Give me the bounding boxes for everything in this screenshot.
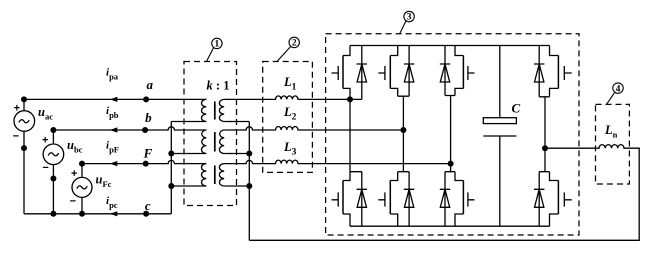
node a	[143, 96, 149, 102]
circled label 4	[607, 83, 624, 105]
node on u_bc wire	[50, 176, 56, 182]
node c	[143, 211, 149, 217]
svg-text:ipc: ipc	[106, 195, 118, 210]
junction secondary common T3	[246, 183, 252, 189]
wire DC bottom rail	[350, 225, 550, 227]
node u_bc bottom	[50, 211, 56, 217]
transformer T3 secondary winding	[219, 164, 224, 186]
transformer T1 primary bottom wire	[171, 121, 206, 123]
AC source u_ac	[14, 99, 35, 213]
junction secondary common T2	[246, 151, 252, 157]
transformer T3 secondary bottom wire	[224, 185, 249, 187]
svg-text:4: 4	[616, 84, 621, 94]
transformer T2 secondary bottom wire	[224, 153, 249, 155]
diode D7	[440, 172, 450, 227]
circled label 2	[277, 37, 299, 61]
junction leg4 midpoint	[542, 145, 548, 151]
arrow i_pF	[110, 161, 118, 166]
circled label 3	[400, 11, 415, 34]
wire row3 with hop and inductor L3	[224, 160, 450, 164]
svg-text:+: +	[71, 168, 77, 180]
svg-text:L3: L3	[283, 140, 297, 158]
diode D5	[357, 172, 367, 227]
transistor Q7 bottom leg3 mirrored	[445, 164, 475, 227]
AC source u_Fc	[72, 164, 92, 214]
svg-text:L1: L1	[283, 75, 297, 93]
transformer T1 secondary winding	[219, 99, 224, 121]
dashed block 1 transformer	[184, 62, 237, 206]
wire line b with hop	[53, 127, 206, 130]
svg-text:ipF: ipF	[106, 140, 119, 155]
dashed block 2 inductors	[263, 62, 313, 173]
transformer T1 primary winding	[201, 99, 206, 121]
transformer T1 secondary bottom wire	[224, 121, 249, 123]
transistor Q4 top leg4 mirrored	[539, 46, 572, 149]
transistor Q5 bottom leg1	[332, 99, 362, 226]
wire DC top rail	[350, 45, 550, 47]
diode D6	[404, 172, 414, 227]
transistor Q6 bottom leg2	[378, 130, 409, 226]
diode D8	[534, 172, 544, 227]
node u_bc top	[50, 127, 56, 133]
svg-text:k : 1: k : 1	[207, 79, 230, 93]
wire row2 with hop and inductor L2	[224, 126, 403, 130]
circled label 1	[207, 38, 223, 61]
svg-text:ipb: ipb	[106, 105, 119, 120]
svg-text:L2: L2	[283, 105, 297, 123]
junction primary common T2	[168, 151, 174, 157]
transformer T2 core	[214, 132, 216, 152]
arrow i_pb	[110, 127, 118, 132]
transformer T1 core	[214, 102, 216, 120]
transformer T3 core	[214, 166, 216, 185]
svg-text:+: +	[14, 102, 20, 114]
diode D3	[440, 46, 450, 96]
node u_ac top	[21, 96, 27, 102]
svg-text:b: b	[145, 110, 152, 125]
transformer T3 primary winding	[201, 164, 206, 186]
svg-text:−: −	[42, 162, 48, 174]
diode D2	[404, 46, 414, 97]
svg-text:1: 1	[215, 40, 220, 50]
svg-text:+: +	[42, 135, 48, 147]
wire primary common vertical	[170, 122, 172, 214]
transformer T2 primary bottom wire	[171, 153, 206, 155]
transistor Q2 top leg2	[378, 46, 409, 131]
dashed block 4 Ln	[596, 104, 630, 184]
svg-text:C: C	[512, 101, 521, 116]
diode D1	[357, 46, 367, 100]
wire line a	[24, 98, 206, 100]
svg-text:F: F	[143, 146, 153, 161]
svg-text:uac: uac	[38, 105, 53, 122]
transformer T3 primary bottom wire	[171, 185, 206, 187]
node u_Fc bottom	[79, 211, 85, 217]
transformer T2 secondary winding	[219, 130, 224, 154]
svg-text:c: c	[145, 198, 151, 213]
node F	[143, 161, 149, 167]
transformer T2 primary winding	[202, 130, 207, 154]
arrow i_pc	[110, 211, 118, 216]
svg-text:2: 2	[292, 39, 297, 49]
svg-text:Ln: Ln	[604, 123, 618, 140]
junction leg2 midpoint	[400, 127, 406, 133]
capacitor C	[483, 46, 516, 227]
node on u_ac wire	[21, 145, 27, 151]
diode D4	[534, 46, 544, 97]
junction primary common T3	[168, 183, 174, 189]
svg-text:a: a	[147, 77, 154, 92]
transistor Q1 top leg1	[332, 46, 351, 100]
svg-text:uFc: uFc	[96, 173, 112, 190]
node b	[142, 127, 148, 133]
dashed block 3 converter	[326, 34, 579, 235]
wire line F with hop	[82, 160, 206, 163]
arrow i_pa	[110, 97, 118, 102]
transistor Q8 bottom leg4 mirrored	[539, 148, 572, 226]
svg-text:−: −	[13, 130, 19, 142]
svg-text:−: −	[70, 196, 76, 208]
junction leg1 midpoint	[347, 96, 353, 102]
svg-text:3: 3	[407, 13, 412, 23]
AC source u_bc	[43, 130, 64, 214]
wire secondary common vertical	[248, 122, 250, 241]
wire line c	[24, 213, 171, 215]
svg-text:ubc: ubc	[67, 138, 83, 155]
junction leg3 midpoint	[448, 161, 454, 167]
wire row1 with inductor L1	[224, 96, 362, 100]
svg-text:ipa: ipa	[106, 67, 119, 82]
inductor Ln with output wire	[249, 145, 639, 241]
node u_Fc top	[79, 161, 85, 167]
transistor Q3 top leg3 mirrored	[445, 46, 475, 164]
